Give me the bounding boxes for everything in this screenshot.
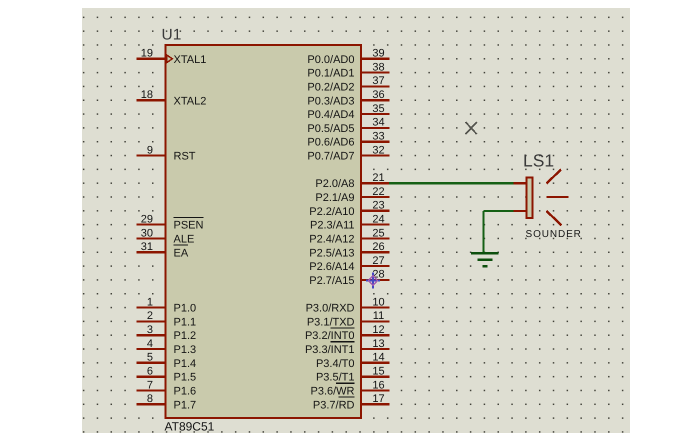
- pin 14 P3.4/T0: [316, 352, 390, 370]
- pin 37 P0.2/AD2: [307, 75, 389, 93]
- pin 13 P3.3/INT1: [305, 338, 390, 356]
- svg-text:P0.0/AD0: P0.0/AD0: [307, 54, 354, 66]
- svg-text:P2.4/A12: P2.4/A12: [309, 234, 354, 246]
- svg-text:SOUNDER: SOUNDER: [526, 229, 582, 240]
- pin 29 PSEN: [137, 213, 204, 231]
- svg-text:P0.6/AD6: P0.6/AD6: [307, 137, 354, 149]
- svg-text:37: 37: [372, 75, 384, 87]
- pin 12 P3.2/INT0: [305, 324, 390, 342]
- wire P2.0/A8 to LS1 top terminal: [389, 182, 514, 184]
- pin 35 P0.4/AD4: [307, 103, 389, 121]
- svg-text:12: 12: [372, 324, 384, 336]
- svg-text:P1.2: P1.2: [174, 330, 197, 342]
- pin 2 P1.1: [137, 310, 197, 328]
- pin 9 RST: [137, 144, 196, 162]
- pin 10 P3.0/RXD: [306, 296, 390, 314]
- pin 3 P1.2: [137, 324, 197, 342]
- svg-text:18: 18: [141, 89, 153, 101]
- origin marker X: [466, 122, 477, 134]
- svg-text:P1.1: P1.1: [174, 316, 197, 328]
- svg-text:27: 27: [372, 255, 384, 267]
- sounder LS1 pin stubs: [514, 183, 527, 211]
- svg-text:P3.0/RXD: P3.0/RXD: [306, 303, 355, 315]
- svg-text:P0.2/AD2: P0.2/AD2: [307, 81, 354, 93]
- svg-text:26: 26: [372, 241, 384, 253]
- svg-text:21: 21: [372, 172, 384, 184]
- pin 4 P1.3: [137, 338, 197, 356]
- svg-text:29: 29: [141, 213, 153, 225]
- svg-text:19: 19: [141, 48, 153, 60]
- svg-text:25: 25: [372, 227, 384, 239]
- svg-text:7: 7: [147, 379, 153, 391]
- svg-text:P3.3/INT1: P3.3/INT1: [305, 344, 355, 356]
- sounder LS1 body: [527, 178, 533, 218]
- svg-text:P3.2/INT0: P3.2/INT0: [305, 330, 355, 342]
- wire vertical segment to ground: [482, 211, 484, 253]
- pin 16 P3.6/WR: [310, 379, 389, 397]
- svg-text:13: 13: [372, 338, 384, 350]
- svg-text:10: 10: [372, 296, 384, 308]
- svg-text:RST: RST: [174, 151, 196, 163]
- pin 6 P1.5: [137, 366, 197, 384]
- svg-text:P0.4/AD4: P0.4/AD4: [307, 109, 354, 121]
- svg-text:4: 4: [147, 338, 153, 350]
- pin 36 P0.3/AD3: [307, 89, 389, 107]
- svg-text:P2.3/A11: P2.3/A11: [310, 220, 354, 232]
- svg-text:P2.0/A8: P2.0/A8: [315, 178, 354, 190]
- svg-text:XTAL1: XTAL1: [174, 54, 207, 66]
- svg-text:2: 2: [147, 310, 153, 322]
- svg-text:P3.4/T0: P3.4/T0: [316, 358, 355, 370]
- pin 23 P2.2/A10: [309, 200, 389, 218]
- svg-text:33: 33: [372, 131, 384, 143]
- pin 21 P2.0/A8: [315, 172, 389, 190]
- pin 1 P1.0: [137, 296, 197, 314]
- svg-text:23: 23: [372, 200, 384, 212]
- pin 30 ALE: [137, 227, 195, 245]
- pin 8 P1.7: [137, 393, 197, 411]
- svg-text:P0.7/AD7: P0.7/AD7: [307, 151, 354, 163]
- svg-text:P3.5/T1: P3.5/T1: [316, 372, 355, 384]
- svg-text:11: 11: [373, 310, 384, 322]
- pin 19 XTAL1: [137, 48, 207, 66]
- pin 17 P3.7/RD: [313, 393, 390, 411]
- svg-text:ALE: ALE: [174, 234, 195, 246]
- pin 26 P2.5/A13: [309, 241, 389, 259]
- svg-text:P2.1/A9: P2.1/A9: [315, 192, 354, 204]
- svg-text:LS1: LS1: [523, 151, 554, 171]
- svg-text:9: 9: [147, 144, 153, 156]
- pin 15 P3.5/T1: [316, 366, 390, 384]
- pin 31 EA: [137, 241, 189, 259]
- pin 28 P2.7/A15: [309, 269, 389, 287]
- pin 18 XTAL2: [137, 89, 207, 107]
- svg-text:P1.3: P1.3: [174, 344, 197, 356]
- svg-text:P1.0: P1.0: [174, 303, 197, 315]
- svg-text:14: 14: [372, 352, 384, 364]
- svg-text:38: 38: [372, 61, 384, 73]
- pin 27 P2.6/A14: [309, 255, 389, 273]
- svg-text:34: 34: [372, 117, 384, 129]
- svg-text:15: 15: [372, 366, 384, 378]
- svg-text:P3.6/WR: P3.6/WR: [310, 386, 354, 398]
- cursor marker at pin 28: [366, 273, 380, 289]
- wire LS1 bottom terminal to ground (horizontal): [484, 210, 514, 212]
- ground: [471, 253, 499, 266]
- svg-text:P1.5: P1.5: [174, 372, 197, 384]
- svg-text:P1.7: P1.7: [174, 399, 197, 411]
- svg-text:5: 5: [147, 352, 153, 364]
- svg-text:P1.4: P1.4: [174, 358, 197, 370]
- svg-text:35: 35: [372, 103, 384, 115]
- svg-text:39: 39: [372, 48, 384, 60]
- svg-text:AT89C51: AT89C51: [165, 420, 215, 433]
- svg-text:16: 16: [372, 379, 384, 391]
- svg-text:22: 22: [372, 186, 384, 198]
- svg-text:XTAL2: XTAL2: [174, 95, 207, 107]
- svg-text:PSEN: PSEN: [174, 220, 204, 232]
- svg-text:EA: EA: [174, 247, 189, 259]
- svg-text:32: 32: [372, 144, 384, 156]
- pin 24 P2.3/A11: [310, 213, 389, 231]
- pin 39 P0.0/AD0: [307, 48, 389, 66]
- pin 33 P0.6/AD6: [307, 131, 389, 149]
- svg-text:P2.5/A13: P2.5/A13: [309, 247, 354, 259]
- svg-text:31: 31: [141, 241, 153, 253]
- pin 34 P0.5/AD5: [307, 117, 389, 135]
- pin 38 P0.1/AD1: [307, 61, 389, 79]
- pin 32 P0.7/AD7: [307, 144, 389, 162]
- svg-text:8: 8: [147, 393, 153, 405]
- pin 7 P1.6: [137, 379, 197, 397]
- svg-text:17: 17: [372, 393, 384, 405]
- svg-text:P2.7/A15: P2.7/A15: [309, 275, 354, 287]
- svg-text:30: 30: [141, 227, 153, 239]
- pin 22 P2.1/A9: [315, 186, 389, 204]
- svg-text:28: 28: [372, 269, 384, 281]
- svg-text:P0.5/AD5: P0.5/AD5: [307, 123, 354, 135]
- svg-text:P2.6/A14: P2.6/A14: [309, 261, 354, 273]
- pin 25 P2.4/A12: [309, 227, 389, 245]
- svg-text:P3.7/RD: P3.7/RD: [313, 399, 355, 411]
- sounder LS1 sound waves: [547, 170, 569, 226]
- svg-text:24: 24: [372, 213, 384, 225]
- IC U1 AT89C51 body: [166, 45, 362, 418]
- svg-text:P0.1/AD1: P0.1/AD1: [307, 68, 354, 80]
- svg-text:P3.1/TXD: P3.1/TXD: [307, 316, 355, 328]
- svg-text:1: 1: [147, 296, 153, 308]
- svg-text:P2.2/A10: P2.2/A10: [309, 206, 354, 218]
- svg-text:3: 3: [147, 324, 153, 336]
- pin 11 P3.1/TXD: [307, 310, 390, 328]
- svg-text:P0.3/AD3: P0.3/AD3: [307, 95, 354, 107]
- svg-text:6: 6: [147, 366, 153, 378]
- svg-text:U1: U1: [162, 26, 182, 43]
- svg-text:36: 36: [372, 89, 384, 101]
- svg-text:P1.6: P1.6: [174, 386, 197, 398]
- pin 5 P1.4: [137, 352, 197, 370]
